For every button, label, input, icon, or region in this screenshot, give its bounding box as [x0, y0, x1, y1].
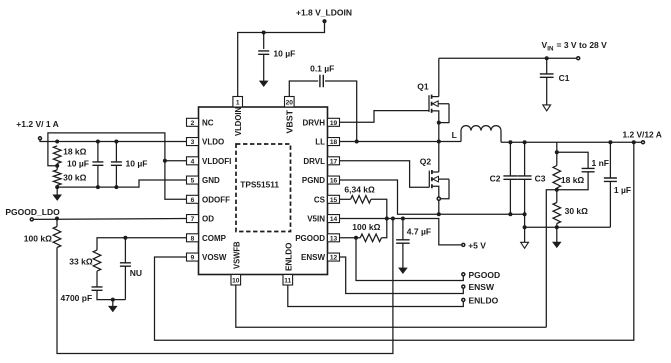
wire output rail [501, 141, 642, 143]
svg-text:VLDOIN: VLDOIN [234, 107, 243, 136]
svg-text:PGOOD: PGOOD [295, 234, 325, 243]
svg-text:+1.2 V/ 1 A: +1.2 V/ 1 A [16, 119, 58, 129]
resistor 30 kOhm (output divider) [553, 203, 561, 224]
capacitor C3 plates [518, 176, 532, 179]
capacitor C1 plates [540, 74, 554, 77]
svg-text:L: L [452, 130, 457, 140]
svg-text:PGOOD: PGOOD [469, 270, 501, 280]
svg-text:1: 1 [236, 100, 240, 107]
wire LDO ground rail [57, 180, 186, 187]
capacitor 4.7 uF plates [396, 240, 410, 243]
Q1 source stub [432, 111, 439, 123]
svg-text:NU: NU [130, 268, 142, 278]
resistor 100 kOhm (PGOOD pull-up) [360, 234, 381, 242]
label 1.2 V/12 A [623, 130, 662, 140]
capacitor 10uF plates [258, 51, 269, 54]
pin 10 box (VSWFB) [231, 275, 241, 286]
junction 4.7uF at V5IN [401, 217, 405, 221]
wire VOSW to output sense [155, 142, 634, 340]
pin 16 box + label PGND [302, 176, 340, 185]
svg-text:16: 16 [330, 178, 338, 185]
svg-text:10 µF: 10 µF [273, 49, 295, 59]
svg-text:5: 5 [191, 178, 195, 185]
pin 6 box + label ODOFF [187, 195, 231, 204]
wire ENLDO to terminal [288, 285, 464, 307]
resistor 100 kOhm (OD pull-up) lead [56, 219, 58, 227]
terminal output 1.2V/12A [642, 141, 645, 144]
svg-text:11: 11 [284, 278, 291, 285]
wire VLDO rail [40, 140, 187, 142]
capacitor C2 top junction [508, 140, 512, 144]
junction cap1 bottom [96, 185, 100, 189]
junction NU tap [123, 236, 127, 240]
svg-text:1.2 V/12 A: 1.2 V/12 A [623, 130, 662, 140]
pin 9 box + label VOSW [187, 253, 227, 262]
svg-text:ENLDO: ENLDO [284, 243, 293, 272]
resistor 18 kOhm (output divider) [553, 166, 561, 189]
Q1 body loop to source [439, 104, 449, 123]
svg-text:Q1: Q1 [417, 82, 429, 92]
resistor 33 kOhm [93, 250, 101, 271]
label VIN = 3 V to 28 V [542, 40, 608, 52]
capacitor 1 nF plates [582, 168, 595, 171]
capacitor 4.7 uF upper lead [402, 219, 404, 240]
label 18 kOhm (left) [63, 147, 87, 157]
svg-text:18: 18 [330, 139, 338, 146]
wire 30k bottom to gnd rail [56, 185, 58, 187]
pin 2 box + label NC [187, 118, 214, 127]
label C2 [490, 173, 501, 183]
label 4.7 uF [407, 227, 431, 237]
svg-text:PGND: PGND [302, 176, 325, 185]
terminal +1.8 V_LDOIN [322, 19, 326, 23]
label 4700 pF [61, 293, 93, 303]
svg-text:20: 20 [286, 100, 294, 107]
svg-text:GND: GND [202, 176, 220, 185]
svg-text:14: 14 [330, 216, 338, 223]
svg-text:LL: LL [315, 138, 325, 147]
svg-text:1 nF: 1 nF [592, 158, 609, 168]
wire VSWFB to feedback divider [236, 285, 547, 327]
ground (filled arrow) under 4.7uF [399, 268, 407, 274]
wire VLDOFI tap [165, 160, 187, 162]
Q2 source stub [432, 186, 439, 197]
label +5 V [468, 240, 486, 250]
capacitor C3 upper lead [524, 142, 526, 176]
svg-text:17: 17 [330, 158, 338, 165]
wire LDO divider mid loop to VLDOFI/ODOFF [48, 133, 187, 199]
junction PGOOD [354, 236, 358, 240]
svg-text:30 kΩ: 30 kΩ [63, 173, 87, 183]
inductor L label [452, 130, 457, 140]
wire V5IN rail [340, 219, 462, 245]
Q1 source-body junction [437, 121, 441, 125]
svg-text:VSWFB: VSWFB [232, 241, 241, 269]
svg-text:6,34 kΩ: 6,34 kΩ [344, 184, 375, 194]
wire OD pin rail [34, 218, 187, 221]
resistor 6.34 kOhm [351, 196, 371, 204]
wire LL pin to switch node [340, 141, 462, 143]
inductor L [461, 126, 501, 143]
terminal PGOOD [462, 273, 465, 276]
junction 1uF top [608, 140, 612, 144]
Q1 channel dashes [431, 95, 433, 113]
svg-text:1 µF: 1 µF [614, 185, 631, 195]
wire comp gnd stub [112, 300, 114, 307]
ground (open triangle) under C1 [543, 105, 551, 111]
capacitor 1 uF plates [604, 178, 617, 181]
ground (filled arrow) under 10uF [260, 81, 268, 87]
label PGOOD [469, 270, 501, 280]
svg-text:TPS51511: TPS51511 [240, 179, 279, 189]
capacitor C1 lead [546, 58, 548, 74]
junction bootstrap at LL [355, 140, 359, 144]
capacitor 1 uF upper lead [609, 142, 611, 178]
capacitor C3 bottom junction [523, 212, 527, 216]
svg-text:+1.8 V_LDOIN: +1.8 V_LDOIN [296, 8, 352, 18]
svg-text:ENLDO: ENLDO [469, 295, 499, 305]
wire output to divider [556, 142, 558, 165]
junction lower ground rail [523, 225, 527, 229]
svg-text:CS: CS [314, 195, 326, 204]
svg-text:VLDOFI: VLDOFI [202, 157, 231, 166]
wire C3 bottom to ground [524, 214, 526, 242]
ground (filled arrow) under 30k [553, 242, 561, 248]
transistor Q1 label [417, 82, 429, 92]
svg-text:10 µF: 10 µF [126, 158, 148, 168]
junction divider mid (right) [555, 188, 559, 192]
transistor Q2 label [420, 157, 432, 167]
wire DRVH to Q1 gate [340, 111, 430, 123]
label 33 kOhm [69, 257, 93, 267]
wire DRVL to Q2 gate [340, 161, 430, 188]
junction 1nF tap [555, 150, 559, 154]
svg-text:COMP: COMP [202, 234, 227, 243]
svg-text:Q2: Q2 [420, 157, 432, 167]
terminal +1.2V/1A [39, 137, 42, 140]
capacitor NU plates [120, 263, 131, 266]
svg-text:VLDO: VLDO [202, 138, 224, 147]
svg-text:100 kΩ: 100 kΩ [352, 222, 380, 232]
capacitor 10uF lower lead [263, 54, 265, 81]
wire bootstrap cap to LL node [325, 81, 357, 142]
pin 19 box + label DRVH [302, 118, 339, 127]
svg-text:ENSW: ENSW [301, 253, 325, 262]
svg-text:19: 19 [330, 120, 338, 127]
junction LDO gnd rail [55, 185, 59, 189]
U1 part number label TPS51511 [240, 179, 279, 189]
label ENLDO [469, 295, 499, 305]
capacitor 1 nF loop [557, 152, 588, 168]
pin 14 box + label V5IN [307, 215, 339, 224]
wire Q2 source to PGND rail [438, 200, 440, 214]
svg-text:= 3 V to 28 V: = 3 V to 28 V [557, 40, 608, 50]
wire 100k to V5IN rail [381, 219, 386, 238]
pin 10 name VSWFB (rotated) [232, 241, 241, 269]
svg-text:C3: C3 [535, 173, 546, 183]
svg-text:10 µF: 10 µF [67, 158, 89, 168]
svg-text:13: 13 [330, 235, 338, 242]
ground (filled arrow) comp [109, 306, 117, 312]
svg-text:DRVL: DRVL [303, 157, 325, 166]
label 18 kOhm [561, 175, 585, 185]
wire 30k bottom [556, 224, 558, 243]
svg-text:6: 6 [191, 197, 195, 204]
svg-text:DRVH: DRVH [302, 118, 325, 127]
junction output sense [632, 140, 636, 144]
svg-text:VOSW: VOSW [202, 253, 227, 262]
ground (filled arrow) LDO divider [53, 195, 61, 201]
capacitor C1 lower lead [546, 77, 548, 105]
wire COMP pin [97, 238, 187, 250]
svg-text:100 kΩ: 100 kΩ [24, 233, 52, 243]
pin 3 box + label VLDO [187, 138, 225, 147]
svg-text:+5 V: +5 V [468, 240, 486, 250]
terminal VIN [577, 57, 580, 60]
Q1 gate bar [428, 95, 430, 112]
wire +1.8V down/left to pin 1 [238, 21, 325, 96]
capacitor C3 lower lead [524, 179, 526, 214]
svg-text:3: 3 [191, 139, 195, 146]
terminal PGOOD_LDO [30, 218, 33, 221]
svg-text:ENSW: ENSW [469, 282, 495, 292]
junction cap1 top [96, 140, 100, 144]
svg-text:4700 pF: 4700 pF [61, 293, 93, 303]
capacitor C2 upper lead [509, 142, 511, 176]
pin 18 box + label LL [315, 138, 339, 147]
pin 1 name VLDOIN (rotated) [234, 107, 243, 136]
svg-text:18 kΩ: 18 kΩ [561, 175, 585, 185]
pin 7 box + label OD [187, 215, 215, 224]
label 30 kOhm (left) [63, 173, 87, 183]
terminal ENLDO [462, 298, 465, 301]
resistor 100 kOhm (OD) [53, 227, 61, 248]
label 30 kOhm [565, 206, 589, 216]
svg-text:PGOOD_LDO: PGOOD_LDO [5, 207, 60, 217]
ground (open triangle) power gnd [521, 242, 529, 248]
wire 33k to 4700pF [96, 271, 98, 287]
wire 4700pF bottom [97, 290, 125, 299]
capacitor 10uF #2 plates [111, 162, 122, 165]
label 1 uF [614, 185, 631, 195]
wire PGOOD pin [340, 237, 361, 239]
capacitor NU leads [124, 238, 126, 300]
junction C1 top [545, 56, 549, 60]
Q2 source connector circle [437, 197, 440, 200]
Q2 drain stub [432, 171, 439, 173]
junction switch node [437, 140, 441, 144]
svg-text:33 kΩ: 33 kΩ [69, 257, 93, 267]
Q2 channel dashes [431, 170, 433, 188]
svg-text:VBST: VBST [286, 110, 295, 134]
wire ENSW to terminal [340, 257, 464, 293]
Q2 gate bar [428, 171, 430, 188]
junction on +1.8V rail [262, 31, 266, 35]
wire Q2 drain to switch node [438, 142, 440, 172]
junction 18k top (left) [55, 140, 59, 144]
pin 5 box + label GND [187, 176, 221, 185]
wire lower ground rail [525, 226, 611, 228]
resistor 30 kOhm (LDO divider) [53, 170, 61, 186]
junction cap2 bottom [114, 185, 118, 189]
wire PGOOD to terminal [356, 238, 463, 281]
wire 6.34k to V5IN rail [371, 199, 387, 218]
resistor 18 kOhm (LDO divider) [53, 146, 61, 164]
pin 15 box + label CS [314, 195, 340, 204]
pin 20 box (VBST) [285, 97, 295, 108]
label 10 uF #2 [126, 158, 148, 168]
svg-text:IN: IN [547, 45, 554, 52]
svg-text:4.7 µF: 4.7 µF [407, 227, 431, 237]
op-amp U1 TPS51511 IC body [199, 107, 328, 275]
wire OD pull-up route [57, 219, 393, 354]
capacitor C2 bottom junction [508, 212, 512, 216]
terminal ENSW [462, 285, 465, 288]
U1 thermal pad (dashed box) [236, 144, 291, 232]
junction 30k bottom [555, 225, 559, 229]
svg-text:7: 7 [191, 216, 195, 223]
wire feedback tap [546, 190, 557, 328]
capacitor C2 plates [503, 176, 517, 179]
wire 18k-30k [56, 164, 58, 170]
label C1 [559, 73, 570, 83]
pin 11 box (ENLDO) [283, 275, 293, 286]
label 100 kOhm (left) [24, 233, 52, 243]
wire Q1 source to switch node [438, 123, 440, 142]
svg-text:C2: C2 [490, 173, 501, 183]
junction comp gnd [111, 298, 115, 302]
capacitor 0.1uF plates [320, 75, 323, 88]
svg-text:9: 9 [191, 255, 195, 262]
label 6,34 kOhm [344, 184, 375, 194]
capacitor 10uF #2 leads [115, 142, 117, 188]
wire pin20 to bootstrap cap [289, 81, 318, 97]
label PGOOD_LDO [5, 207, 60, 217]
wire PGND pin to power ground rail [340, 180, 525, 214]
junction OD pull-up at V5IN [391, 217, 395, 221]
junction 100k top (left) [55, 217, 59, 221]
label 1 nF [592, 158, 609, 168]
svg-text:0.1 µF: 0.1 µF [310, 63, 334, 73]
Q1 drain stub [432, 96, 439, 98]
pin 1 box (VLDOIN) [233, 97, 243, 108]
svg-text:8: 8 [191, 235, 195, 242]
capacitor 4700 pF plates [92, 287, 103, 290]
svg-text:NC: NC [202, 118, 214, 127]
capacitor 4.7 uF lower lead [402, 243, 404, 268]
label 10 uF #1 [67, 158, 89, 168]
pin 12 box + label ENSW [301, 253, 340, 262]
Q1 drain wire up to VIN rail [438, 58, 440, 96]
wire CS pin [340, 198, 351, 200]
terminal +5 V [462, 243, 465, 246]
capacitor C 10uF (LDOIN bypass) lead [263, 33, 265, 50]
label NU [130, 268, 142, 278]
Q2 body loop to source [440, 179, 449, 199]
label 10 uF [273, 49, 295, 59]
node +1.8 V_LDOIN label [296, 8, 352, 18]
label 100 kOhm (right) [352, 222, 380, 232]
junction cap2 top [114, 140, 118, 144]
label 0.1 uF [310, 63, 334, 73]
svg-text:10: 10 [232, 278, 240, 285]
capacitor 10uF #1 leads [97, 142, 99, 188]
capacitor 1 nF lower lead [557, 172, 588, 190]
pin 8 box + label COMP [187, 234, 227, 243]
svg-text:ODOFF: ODOFF [202, 195, 230, 204]
wire gnd stub [56, 187, 58, 195]
wire VIN rail [439, 57, 577, 59]
svg-text:15: 15 [330, 197, 338, 204]
svg-text:V5IN: V5IN [307, 215, 325, 224]
Q2 body stub with arrow [433, 176, 449, 182]
junction VLDOFI [163, 159, 167, 163]
pin 11 name ENLDO (rotated) [284, 243, 293, 272]
svg-text:12: 12 [330, 255, 338, 262]
pin 20 name VBST (rotated) [286, 110, 295, 134]
pin 17 box + label DRVL [303, 157, 339, 166]
junction LDO divider mid [55, 164, 59, 168]
svg-text:2: 2 [191, 120, 195, 127]
pin 13 box + label PGOOD [295, 234, 339, 243]
capacitor 1 uF lower lead [609, 181, 611, 227]
pin 4 box + label VLDOFI [187, 157, 232, 166]
label C3 [535, 173, 546, 183]
svg-text:18 kΩ: 18 kΩ [63, 147, 87, 157]
svg-text:30 kΩ: 30 kΩ [565, 206, 589, 216]
label +1.2 V/ 1 A [16, 119, 58, 129]
capacitor C3 top junction [523, 140, 527, 144]
Q1 body stub with arrow [432, 101, 449, 107]
svg-text:OD: OD [202, 215, 214, 224]
label ENSW [469, 282, 495, 292]
junction Q2 source on PGND rail [437, 212, 441, 216]
svg-text:C1: C1 [559, 73, 570, 83]
svg-text:4: 4 [191, 158, 195, 165]
capacitor 10uF #1 plates [92, 162, 103, 165]
wire 18k bottom [556, 188, 558, 203]
junction 6.34k at V5IN [385, 217, 389, 221]
capacitor C2 lower lead [509, 179, 511, 214]
